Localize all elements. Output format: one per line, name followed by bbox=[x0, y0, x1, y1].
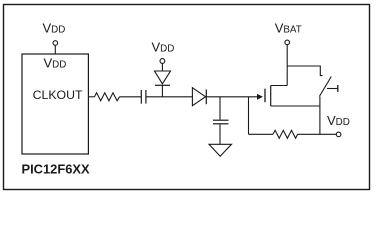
svg-text:CLKOUT: CLKOUT bbox=[33, 88, 83, 102]
wire D2 to gate with arrowhead bbox=[206, 94, 263, 100]
svg-text:PIC12F6XX: PIC12F6XX bbox=[22, 161, 90, 176]
node: wire down to R2 branch bbox=[249, 97, 274, 135]
node: wire down to C2 bbox=[219, 97, 221, 120]
power VBAT bbox=[275, 20, 302, 85]
wire R1 to C1 bbox=[120, 96, 142, 98]
label PIC12F6XX bbox=[22, 161, 90, 176]
diode D2 (series) bbox=[192, 88, 206, 106]
wire VBAT rail to switch bbox=[287, 66, 322, 76]
pin label VDD (inside box) bbox=[44, 56, 67, 71]
diode D1 (clamp to VDD) bbox=[155, 71, 171, 97]
switch S1 bbox=[319, 77, 337, 97]
ground bbox=[209, 144, 232, 156]
power VDD (right) bbox=[327, 113, 350, 137]
power VDD (above D1) bbox=[152, 40, 175, 72]
capacitor C1 bbox=[141, 90, 146, 104]
resistor R1 bbox=[95, 93, 120, 101]
wire C1 to D2 with node at D1 bbox=[146, 96, 193, 98]
transistor Q1 (P-ch MOSFET, simplified) bbox=[265, 86, 320, 107]
PIC12F6XX box U1 bbox=[22, 54, 88, 154]
resistor R2 bbox=[273, 130, 298, 138]
wire CLKOUT pin bbox=[88, 96, 94, 98]
capacitor C2 bbox=[213, 120, 229, 144]
wire R2 to VDD terminal bbox=[298, 133, 337, 135]
pin label CLKOUT bbox=[33, 88, 83, 102]
power VDD (top left) bbox=[43, 21, 66, 54]
wire switch to VDD node bbox=[319, 96, 321, 134]
